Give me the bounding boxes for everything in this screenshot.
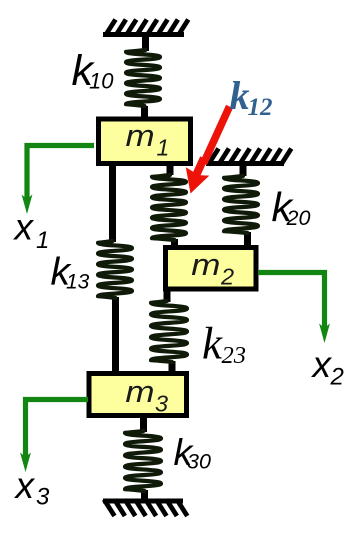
svg-text:k: k (202, 319, 223, 369)
label x3 (14, 465, 51, 511)
svg-text:20: 20 (286, 206, 311, 230)
spring k13 (98, 163, 132, 371)
mass m1 (99, 119, 191, 164)
label x1 (13, 207, 50, 255)
svg-text:3: 3 (36, 484, 50, 511)
svg-text:x: x (13, 207, 35, 248)
svg-text:m: m (191, 248, 220, 283)
svg-text:3: 3 (155, 391, 168, 417)
svg-text:30: 30 (187, 450, 211, 474)
label x2 (311, 344, 344, 391)
red arrow pointing to spring k12 (186, 107, 230, 194)
svg-text:m: m (126, 119, 155, 154)
svg-text:1: 1 (157, 135, 170, 161)
label k12 (blue) (230, 73, 273, 121)
spring k23 (151, 289, 187, 371)
svg-text:m: m (125, 375, 154, 410)
svg-text:23: 23 (222, 342, 247, 369)
label k30 (174, 431, 211, 474)
spring k12 (152, 163, 186, 247)
label k13 (51, 251, 90, 294)
coordinate arrow x3 (20, 400, 88, 473)
mass m2 (166, 248, 257, 290)
coordinate arrow x1 (22, 146, 94, 215)
coordinate arrow x2 (258, 273, 330, 344)
svg-text:k: k (230, 73, 250, 118)
svg-text:x: x (311, 344, 333, 385)
label m2 (191, 248, 234, 290)
svg-text:12: 12 (248, 94, 273, 121)
svg-text:10: 10 (89, 69, 114, 94)
fixed support wall bottom (103, 500, 187, 517)
label k10 (72, 47, 115, 95)
label m1 (126, 119, 170, 161)
spring k30 (125, 417, 161, 500)
svg-text:2: 2 (220, 263, 234, 289)
label k23 (202, 319, 246, 370)
fixed support wall top (103, 20, 188, 37)
svg-text:x: x (14, 465, 36, 506)
svg-text:1: 1 (36, 227, 49, 254)
svg-text:13: 13 (66, 271, 90, 294)
spring k10 (126, 37, 160, 118)
label m3 (125, 375, 168, 417)
fixed support wall middle-right (206, 149, 291, 166)
label k20 (272, 184, 311, 230)
spring k20 (224, 165, 258, 247)
mass m3 (89, 374, 187, 416)
svg-text:2: 2 (330, 364, 344, 391)
